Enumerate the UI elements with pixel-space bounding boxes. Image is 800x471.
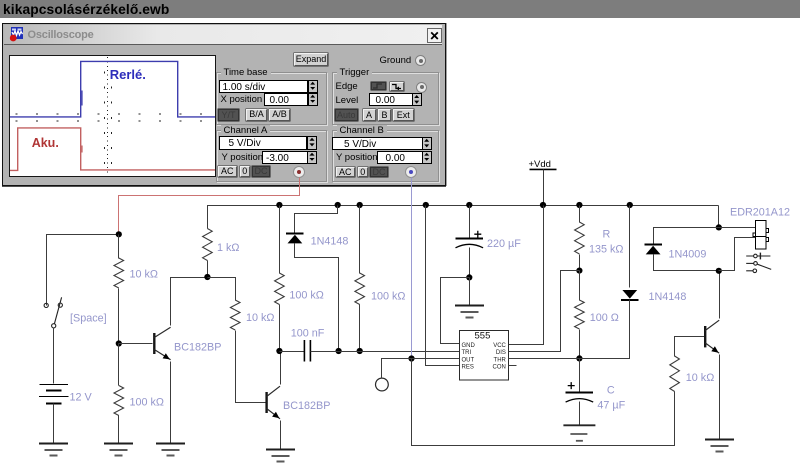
resistor R7 135k bbox=[575, 222, 585, 254]
wire battery to ground bbox=[53, 404, 55, 444]
transistor Q3 BC_NPN bbox=[705, 320, 719, 353]
svg-text:OUT: OUT bbox=[462, 357, 475, 363]
wire Q1 collector up bbox=[171, 278, 208, 326]
wire rail to R6 bbox=[359, 206, 361, 274]
svg-text:100 kΩ: 100 kΩ bbox=[289, 290, 323, 302]
wire node8 to R8 bbox=[579, 271, 581, 301]
wire Q3 collector up bbox=[719, 271, 721, 319]
scope trace channel B (relay) bbox=[10, 61, 215, 117]
resistor R5 100k bbox=[275, 273, 285, 305]
wire Q1 emitter to ground bbox=[170, 362, 172, 444]
wire node7 to ground bbox=[469, 278, 471, 306]
wire node to relay coil top bbox=[719, 227, 756, 229]
ground below C4 bbox=[563, 425, 595, 441]
resistor R8 100ohm bbox=[575, 300, 585, 329]
wire switch to node1 bbox=[47, 235, 119, 306]
node OUT junction bbox=[408, 355, 414, 361]
wire node7 to U1 GND bbox=[441, 278, 470, 344]
wire rail to C2 bbox=[469, 206, 471, 238]
node rail-R5 junction bbox=[276, 202, 282, 208]
application title bar bbox=[0, 0, 800, 18]
wire C1 to U1 TRI bbox=[311, 351, 460, 353]
wire D1 to node5 bbox=[295, 244, 339, 352]
wire node1 to R1 bbox=[118, 235, 120, 259]
resistor R1 10k bbox=[114, 258, 124, 288]
wire probe channel B (blue) bbox=[411, 178, 413, 359]
op-amp timer U1 555 bbox=[460, 331, 509, 381]
relay K1 contacts bbox=[746, 253, 771, 273]
svg-text:135 kΩ: 135 kΩ bbox=[589, 244, 623, 256]
ground below Q3 bbox=[705, 440, 734, 452]
wire node to D3 cathode bbox=[654, 228, 719, 245]
wire R6 to node6 bbox=[359, 305, 361, 352]
ground below Q2 bbox=[266, 450, 295, 462]
svg-text:GND: GND bbox=[462, 343, 476, 349]
svg-text:100 kΩ: 100 kΩ bbox=[130, 397, 164, 409]
wire node9 to C4 bbox=[579, 359, 581, 393]
node A1 junction bbox=[116, 231, 122, 237]
svg-text:R: R bbox=[603, 229, 611, 241]
transistor Q2 BC182BP bbox=[267, 386, 280, 419]
terminal node circle bbox=[376, 378, 389, 391]
wire rail to R7 bbox=[579, 206, 581, 223]
resistor R3 1k bbox=[203, 229, 213, 261]
wire Vdd to rail bbox=[543, 170, 545, 206]
scope graticule bbox=[15, 57, 215, 177]
wire node2 to Q1 base bbox=[119, 343, 153, 345]
svg-text:THR: THR bbox=[494, 357, 507, 363]
wire rail to D2 bbox=[629, 206, 631, 288]
wire R8 to node9 bbox=[579, 330, 581, 359]
wire node3 to R4 bbox=[208, 278, 236, 301]
wire C4 to ground bbox=[579, 402, 581, 426]
scope trace channel A (battery) bbox=[10, 127, 215, 170]
ground below battery bbox=[39, 444, 68, 456]
svg-text:1 kΩ: 1 kΩ bbox=[217, 242, 239, 254]
svg-text:EDR201A12: EDR201A12 bbox=[730, 207, 790, 219]
svg-text:10 kΩ: 10 kΩ bbox=[246, 312, 274, 324]
svg-text:DIS: DIS bbox=[496, 350, 506, 356]
ground below C2 bbox=[455, 306, 484, 318]
node relay top junction bbox=[716, 224, 722, 230]
wire D3 anode to node10 bbox=[654, 255, 719, 271]
resistor R4 10k bbox=[230, 300, 240, 330]
node rail-C2 junction bbox=[466, 202, 472, 208]
diode D3 1N4009 bbox=[644, 245, 662, 255]
wire node10 to relay coil bottom bbox=[719, 238, 756, 271]
svg-text:[Space]: [Space] bbox=[70, 313, 107, 325]
wire node4 to C1 bbox=[280, 351, 305, 353]
resistor R6 100k bbox=[355, 273, 365, 305]
svg-text:47 µF: 47 µF bbox=[597, 400, 625, 412]
wire node OUT to R9 bottom bbox=[412, 359, 675, 446]
diode D2 1N4148 bbox=[621, 290, 639, 300]
svg-text:220 µF: 220 µF bbox=[487, 238, 521, 250]
svg-text:12 V: 12 V bbox=[70, 392, 93, 404]
wire R9 to Q3 base bbox=[675, 337, 705, 357]
node C2 bottom junction bbox=[466, 274, 472, 280]
svg-text:1N4148: 1N4148 bbox=[311, 236, 349, 248]
wire node8 to U1 DIS bbox=[509, 271, 580, 352]
node rail-R6 junction bbox=[357, 202, 363, 208]
transistor Q1 BC182BP bbox=[154, 327, 170, 360]
svg-text:RES: RES bbox=[462, 365, 474, 371]
svg-text:BC182BP: BC182BP bbox=[283, 400, 330, 412]
svg-text:TRI: TRI bbox=[462, 350, 472, 356]
node Q3 collector junction bbox=[716, 268, 722, 274]
wire Q2 emitter to ground bbox=[280, 421, 282, 450]
resistor R9 10k bbox=[670, 356, 680, 392]
wire rail to D1 bbox=[295, 206, 338, 234]
svg-text:555: 555 bbox=[475, 331, 491, 342]
wire rail to R5 bbox=[279, 206, 281, 274]
node rail-R7 junction bbox=[576, 202, 582, 208]
wire rail corner down bbox=[718, 206, 720, 228]
node R6 junction bbox=[357, 348, 363, 354]
ground below R2 bbox=[104, 444, 133, 456]
wire node OUT to U1 OUT bbox=[412, 358, 460, 360]
svg-text:1N4009: 1N4009 bbox=[669, 249, 707, 261]
svg-text:C: C bbox=[607, 385, 615, 397]
svg-text:CON: CON bbox=[493, 365, 506, 371]
wire R1 to node2 bbox=[118, 289, 120, 344]
oscilloscope window bbox=[2, 23, 446, 186]
node rail-D2 junction bbox=[627, 202, 633, 208]
svg-text:+Vdd: +Vdd bbox=[529, 159, 551, 170]
wire R3 to rail bbox=[208, 206, 719, 229]
wire switch to battery bbox=[53, 328, 55, 384]
node D1 junction bbox=[336, 348, 342, 354]
wire terminal to node OUT bbox=[382, 359, 412, 379]
relay K1 EDR201A12 coil bbox=[753, 221, 768, 250]
wire R4 to Q2 base bbox=[236, 331, 266, 403]
svg-text:VCC: VCC bbox=[493, 343, 506, 349]
node R7-R8 junction bbox=[576, 268, 582, 274]
wire node2 to R2 bbox=[118, 344, 120, 386]
wire C2 to node7 bbox=[469, 248, 471, 278]
wire probe channel A (red) bbox=[119, 178, 300, 235]
capacitor C2 220uF bbox=[456, 231, 484, 248]
ground below Q1 bbox=[156, 444, 185, 456]
battery V1 12V bbox=[39, 385, 69, 404]
node rail-Vcc junction bbox=[540, 202, 546, 208]
svg-text:100 nF: 100 nF bbox=[291, 328, 325, 340]
svg-text:1N4148: 1N4148 bbox=[649, 291, 687, 303]
wire node9 to U1 THR bbox=[509, 358, 580, 360]
wire R2 to ground bbox=[118, 416, 120, 444]
wire R7 to node8 bbox=[579, 255, 581, 271]
node collector Q2 junction bbox=[276, 348, 282, 354]
node base Q1 junction bbox=[116, 340, 122, 346]
wire D2 to node9 bbox=[580, 300, 630, 359]
svg-text:BC182BP: BC182BP bbox=[174, 342, 221, 354]
wire rail to U1 VCC bbox=[509, 206, 544, 345]
wire U1 CON stub bbox=[509, 365, 517, 367]
svg-text:10 kΩ: 10 kΩ bbox=[130, 269, 158, 281]
wire Q2 collector up bbox=[280, 352, 282, 385]
wire R5 to node4 bbox=[279, 305, 281, 352]
svg-text:100 Ω: 100 Ω bbox=[590, 312, 619, 324]
node rail-RES junction bbox=[423, 202, 429, 208]
node rail-D1 junction bbox=[335, 202, 341, 208]
node R3 bottom junction bbox=[204, 274, 210, 280]
switch J1 [Space] bbox=[44, 297, 62, 328]
wire rail top bbox=[207, 261, 209, 278]
power +Vdd symbol bbox=[530, 168, 557, 170]
diode D1 1N4148 bbox=[286, 234, 304, 244]
capacitor C4 47uF bbox=[566, 382, 594, 402]
wire rail to U1 RES bbox=[426, 206, 460, 366]
svg-text:10 kΩ: 10 kΩ bbox=[686, 372, 714, 384]
wire Q3 emitter to ground bbox=[719, 355, 721, 440]
capacitor C1 100nF bbox=[304, 340, 310, 362]
node THR junction bbox=[576, 355, 582, 361]
resistor R2 100k bbox=[114, 386, 124, 416]
svg-text:100 kΩ: 100 kΩ bbox=[371, 291, 405, 303]
